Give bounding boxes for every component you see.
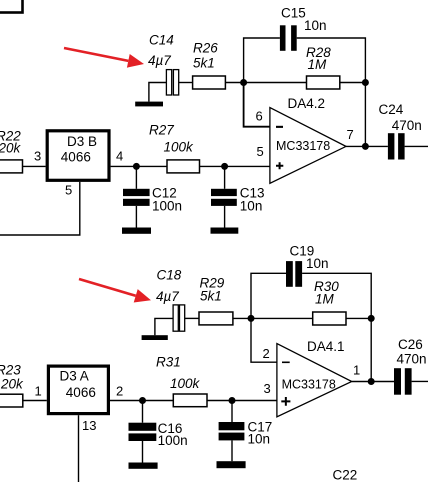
svg-text:1: 1 (35, 384, 42, 399)
wire D3A pin 2 to op-amp pin 3 (110, 400, 277, 402)
wire C13 to ground (224, 206, 226, 228)
minus sign (DA4.1) (282, 362, 290, 364)
svg-text:3: 3 (264, 381, 271, 396)
resistor R26 (193, 76, 226, 89)
node I junction (139, 397, 146, 404)
resistor R27 (167, 160, 200, 173)
wire C15 to feedback right (297, 38, 366, 83)
node H junction (output) (368, 378, 375, 385)
capacitor C16 (129, 423, 157, 441)
minus sign (DA4.2) (276, 126, 283, 128)
svg-text:5: 5 (65, 182, 72, 197)
wire C14 to R26 (179, 82, 193, 84)
wire C12 to ground (135, 206, 137, 228)
wire C19 to feedback right (302, 273, 371, 318)
op-amp DA4.1 (277, 344, 352, 417)
wire R30 to node G (346, 317, 371, 319)
node G junction (368, 315, 375, 322)
capacitor C19 (286, 261, 302, 287)
svg-text:1M: 1M (315, 292, 335, 307)
switch D3 B (47, 131, 109, 181)
node A junction (240, 79, 247, 86)
plus sign (DA4.1) (281, 397, 290, 406)
wire node G down to output (370, 318, 372, 381)
wire R29 to node F (233, 317, 251, 319)
wire node E to C13 (224, 166, 226, 188)
svg-text:R31: R31 (156, 355, 181, 370)
wire R26 to node A (225, 82, 243, 84)
wire R23 to D3A (23, 400, 47, 402)
svg-text:1: 1 (353, 363, 360, 378)
svg-text:D3 B: D3 B (67, 134, 97, 149)
svg-text:R27: R27 (149, 122, 174, 137)
svg-text:4µ7: 4µ7 (148, 53, 171, 68)
node J junction (229, 397, 236, 404)
resistor R28 (307, 76, 340, 89)
svg-text:R23: R23 (0, 363, 21, 378)
resistor R29 (199, 312, 233, 325)
svg-text:C24: C24 (379, 102, 404, 117)
capacitor C24 (388, 133, 405, 159)
wire D3B pin 5 down-left (0, 182, 80, 235)
svg-text:C26: C26 (398, 337, 423, 352)
resistor R22 (0, 160, 23, 173)
svg-text:2: 2 (116, 384, 123, 399)
svg-text:5k1: 5k1 (193, 55, 215, 70)
wire C18 left to ground (155, 318, 173, 335)
svg-text:100n: 100n (152, 198, 182, 213)
svg-text:10n: 10n (306, 256, 329, 271)
resistor R23 (0, 394, 23, 407)
svg-text:D3 A: D3 A (60, 369, 89, 384)
svg-text:10n: 10n (240, 198, 263, 213)
svg-text:4: 4 (116, 148, 123, 163)
wire output pin 7 to C24 (346, 145, 388, 147)
capacitor C18 (173, 305, 185, 331)
switch D3 A (48, 366, 108, 414)
svg-text:C14: C14 (149, 33, 174, 48)
svg-text:MC33178: MC33178 (282, 378, 336, 392)
svg-text:3: 3 (34, 148, 41, 163)
node B junction (362, 79, 369, 86)
plus sign (DA4.2) (276, 162, 283, 169)
svg-text:13: 13 (82, 418, 96, 433)
wire R22 to D3B (23, 165, 46, 167)
svg-text:4066: 4066 (61, 150, 91, 165)
wire node A down to pin 6 (244, 83, 270, 127)
wire node I to C16 (142, 401, 144, 423)
svg-text:DA4.1: DA4.1 (307, 339, 345, 354)
svg-text:DA4.2: DA4.2 (288, 96, 326, 111)
svg-text:1M: 1M (308, 57, 328, 72)
svg-text:4066: 4066 (66, 385, 96, 400)
wire node B down to output (364, 83, 366, 147)
svg-text:C22: C22 (333, 468, 358, 482)
wire node D to C12 (135, 166, 137, 188)
partial IC box top-left (0, 0, 23, 13)
wire C16 to ground (142, 441, 144, 463)
svg-text:100k: 100k (170, 376, 201, 391)
svg-text:2: 2 (263, 346, 270, 361)
ground (C17) (217, 461, 246, 468)
capacitor C14 (166, 70, 178, 95)
svg-text:470n: 470n (397, 352, 427, 367)
wire node F up to C19 (251, 273, 286, 318)
wire node F down to pin 2 (251, 318, 277, 362)
ground (C16) (129, 463, 158, 469)
resistor R31 (173, 394, 207, 407)
svg-text:4µ7: 4µ7 (156, 289, 179, 304)
resistor R30 (313, 312, 346, 325)
wire D3B pin 4 to op-amp pin 5 (111, 165, 270, 167)
svg-text:10n: 10n (248, 432, 271, 447)
svg-text:5: 5 (257, 144, 264, 159)
wire node A to R28 (244, 82, 307, 84)
wire C14 left to ground (149, 83, 167, 102)
capacitor C13 (211, 189, 237, 206)
capacitor C17 (219, 422, 245, 440)
svg-text:C18: C18 (157, 268, 182, 283)
op-amp DA4.2 (270, 108, 346, 184)
red arrow annotation 2 (79, 279, 151, 303)
svg-text:R26: R26 (193, 41, 218, 56)
svg-text:MC33178: MC33178 (276, 139, 330, 153)
wire R28 to node B (340, 82, 366, 84)
svg-text:20k: 20k (0, 141, 22, 156)
wire output pin 1 to C26 (352, 381, 394, 383)
svg-text:C15: C15 (281, 6, 306, 21)
svg-text:5k1: 5k1 (200, 289, 222, 304)
svg-text:6: 6 (256, 109, 263, 124)
node F junction (248, 315, 255, 322)
wire D3A pin 13 down (78, 415, 80, 482)
wire C18 to R29 (185, 317, 199, 319)
wire C26 to right edge (412, 380, 428, 382)
svg-text:10n: 10n (304, 18, 327, 33)
ground (C13) (211, 228, 239, 234)
svg-text:100n: 100n (158, 433, 188, 448)
node D junction (133, 163, 140, 170)
svg-text:100k: 100k (164, 140, 195, 155)
wire node A up to C15 (244, 38, 280, 83)
capacitor C12 (123, 189, 150, 206)
ground (C14) (135, 102, 163, 107)
svg-text:7: 7 (347, 127, 354, 142)
capacitor C15 (280, 25, 297, 51)
wire C24 to right edge (405, 145, 428, 147)
wire node F to R30 (251, 317, 313, 319)
node E junction (221, 163, 228, 170)
capacitor C26 (394, 368, 412, 395)
ground (C12) (122, 228, 151, 234)
red arrow annotation 1 (64, 48, 144, 68)
node C junction (output) (362, 143, 369, 150)
ground (C18) (142, 335, 168, 340)
wire C17 to ground (231, 440, 233, 461)
wire node J to C17 (231, 401, 233, 423)
svg-text:20k: 20k (0, 377, 24, 392)
svg-text:470n: 470n (392, 118, 422, 133)
